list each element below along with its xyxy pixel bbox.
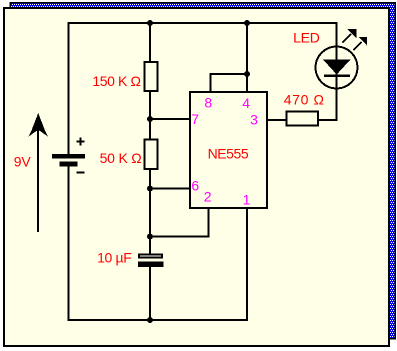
capacitor C1 top plate: [139, 255, 162, 258]
svg-text:LED: LED: [293, 29, 320, 45]
wire LED cathode drop: [336, 23, 338, 120]
junction node at R1 top: [147, 20, 153, 26]
battery B1 negative plate: [60, 162, 78, 167]
svg-text:NE555: NE555: [208, 146, 249, 162]
LED D1 circle: [316, 47, 358, 89]
wire battery positive riser: [68, 22, 70, 154]
battery B1 positive plate: [52, 154, 85, 159]
wire pin 8 riser: [210, 74, 212, 92]
9V polarity arrow shaft: [37, 128, 39, 232]
wire bottom rail ground return: [68, 319, 249, 321]
svg-text:10 µF: 10 µF: [97, 250, 131, 266]
wire pin 6 threshold: [150, 188, 190, 190]
svg-text:6: 6: [191, 177, 199, 193]
resistor R3 470 body: [287, 112, 319, 126]
LED D1 anode triangle: [323, 60, 351, 75]
svg-text:3: 3: [250, 111, 258, 127]
junction node pin 6: [147, 186, 153, 192]
svg-text:2: 2: [204, 189, 212, 205]
battery plus sign: [77, 138, 85, 146]
junction node pin 2 / C1 top: [147, 234, 153, 240]
svg-text:1: 1: [243, 191, 251, 207]
svg-text:8: 8: [204, 95, 212, 111]
junction node at Vcc drop: [244, 20, 250, 26]
wire capacitor negative lead: [149, 266, 151, 321]
LED emission arrow 2 head: [359, 37, 367, 46]
resistor R2 50K body: [145, 140, 158, 170]
junction node C1 bottom rail: [147, 317, 153, 323]
wire pin 2 trigger: [150, 208, 209, 237]
svg-text:4: 4: [242, 95, 250, 111]
wire R1 top feed: [149, 23, 151, 62]
wire pin 4 riser: [246, 74, 248, 92]
junction node pins 8-4: [244, 71, 250, 77]
wire pin 8 to pin 4 strap: [210, 73, 248, 75]
wire R2 bottom to capacitor: [149, 169, 151, 254]
9V polarity arrow head: [29, 113, 49, 137]
wire top rail V+: [68, 22, 338, 24]
wire pin 3 output: [266, 119, 286, 121]
LED emission arrow 1 shaft: [342, 34, 351, 43]
capacitor C1 bottom plate: [138, 262, 164, 268]
resistor R1 150K body: [145, 62, 158, 91]
wire R3 to LED: [318, 119, 338, 121]
battery minus sign: [77, 172, 85, 174]
svg-text:50 K Ω: 50 K Ω: [100, 150, 142, 166]
LED emission arrow 1 head: [347, 29, 356, 38]
op-amp timer IC U1 NE555 body: [190, 92, 267, 208]
wire Vcc drop to pins 8-4: [246, 23, 248, 74]
wire pin 1 ground riser: [246, 207, 248, 321]
wire pin 7 discharge: [150, 118, 190, 120]
svg-text:7: 7: [191, 111, 199, 127]
junction node pin 7: [147, 116, 153, 122]
LED emission arrow 2 shaft: [353, 42, 361, 50]
svg-text:9V: 9V: [14, 153, 32, 169]
LED D1 cathode bar: [324, 74, 350, 77]
svg-text:470 Ω: 470 Ω: [284, 91, 325, 107]
wire battery negative lead: [68, 166, 70, 321]
wire R1-R2 link: [149, 91, 151, 139]
svg-text:150 K Ω: 150 K Ω: [92, 73, 140, 89]
